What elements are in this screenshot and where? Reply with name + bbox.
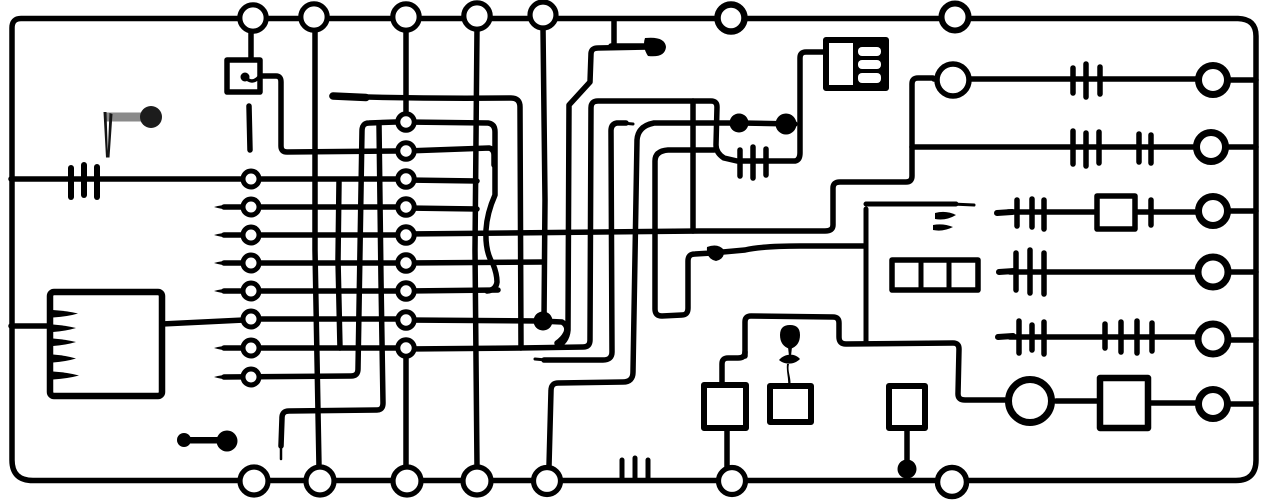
pad dot N6 (898, 460, 917, 479)
resistor R7 box (1097, 196, 1135, 229)
wire row8 to riser (224, 122, 396, 377)
wire pad column jumper top (248, 30, 254, 61)
probe hook dot (140, 106, 162, 128)
wire corner y204 (866, 204, 956, 342)
pad square P3 (889, 386, 925, 428)
header pin M7 (398, 283, 414, 299)
connector pad B7 (938, 468, 967, 497)
wire from box J1 down-right (258, 76, 396, 152)
header pin M6 (398, 255, 414, 271)
stub hanging below J1 (249, 106, 250, 150)
capacitor C5 row3 (1017, 199, 1151, 229)
wire row y122 to S riser (406, 122, 497, 291)
wire row1 right stub (406, 180, 477, 181)
wire row y263 (406, 262, 543, 263)
relay K1 (826, 40, 886, 88)
wire IC input (11, 323, 52, 329)
wire row y320 through junction (406, 320, 567, 343)
header pin L6 (243, 311, 259, 327)
wire row y151 corner (406, 148, 494, 165)
terminal T1 (937, 64, 969, 96)
lamp D1 (1009, 380, 1052, 423)
header pin L8 (243, 369, 259, 385)
capacitor C2 plates (740, 147, 766, 178)
leaf taper row4 (214, 261, 243, 266)
header pin L3 (243, 227, 259, 243)
wire row2 left (224, 204, 398, 210)
wire staircase s5 to curve net (655, 150, 864, 316)
wire row4 left (224, 260, 398, 266)
junction dot N3 (730, 114, 749, 133)
connector pad B3 (393, 467, 421, 495)
wire IC output to pad row (162, 320, 244, 324)
wire top stub to dot (611, 20, 646, 46)
wire right block row5 (1010, 337, 1256, 340)
dumbbell test point (177, 433, 191, 447)
wire mega loop row7 to relay (406, 52, 826, 349)
wire riser x693 (690, 101, 696, 231)
wire top rail riser x316 (315, 30, 319, 466)
junction dot N1 (534, 312, 553, 331)
wire right block row1 (934, 79, 1256, 80)
pad square P1 (704, 385, 746, 428)
pad square P2 (770, 386, 811, 422)
header pin M1 (398, 114, 414, 130)
IC U1 (50, 292, 162, 396)
header pin L4 (243, 255, 259, 271)
wire square pad stub (904, 428, 910, 461)
decorations layer (53, 38, 1152, 479)
terminal T3 (1197, 133, 1226, 162)
relay K1 contacts (853, 43, 884, 85)
wire row5 left (224, 288, 398, 294)
IC U1 pin teeth (53, 310, 78, 318)
header pin L1 (243, 171, 259, 187)
capacitor C6 row4 (1016, 250, 1044, 294)
wire riser x543 to junction (543, 28, 545, 320)
resistor R8 box (1100, 378, 1148, 428)
wire right block row3 (1008, 211, 1256, 212)
wire riser x477 full (475, 29, 477, 466)
connector pad B5 (534, 468, 561, 495)
connector pad A7 (942, 4, 969, 31)
header pin L7 (243, 340, 259, 356)
wire staircase s3 with stub top (544, 123, 626, 360)
capacitor C1 plates (71, 165, 97, 197)
leaf taper row8 (214, 375, 243, 380)
connector pad B4 (463, 467, 491, 495)
wire riser x380 to bottom elbow (281, 124, 383, 446)
probe hook gray bar (106, 113, 144, 122)
terminal T4 (1199, 197, 1228, 226)
junction dot N5 on curve (707, 246, 724, 261)
capacitor C3 row1 (1073, 64, 1100, 97)
connector pad A1 (240, 5, 266, 31)
connector pad B6 (719, 468, 746, 495)
header pin L5 (243, 283, 259, 299)
leaf taper row7 (214, 346, 243, 351)
header pin M3 (398, 171, 414, 187)
wire staircase s4 dots line to bottom pad (549, 123, 795, 466)
wire right block row2 (912, 144, 1256, 150)
wire riser x406 top (403, 30, 409, 113)
terminal T2 (1199, 66, 1228, 95)
box J1 (227, 60, 260, 92)
wire row y291 (406, 290, 498, 291)
wire long row y231 to top right (406, 78, 933, 234)
header pin L2 (243, 199, 259, 215)
wire right block row4 (1010, 269, 1256, 275)
wire riser x406 bottom (403, 357, 409, 466)
balloon TP1 (780, 325, 800, 349)
header pin M2 (398, 143, 414, 159)
connector pad A3 (393, 4, 419, 30)
connector pad A2 (301, 4, 327, 30)
probe hook needle (104, 112, 113, 158)
terminal T6 (1198, 324, 1228, 354)
net stub dot N2 (644, 38, 666, 57)
header pin M9 (398, 340, 414, 356)
leaf taper row2 (214, 205, 243, 210)
connector pad A5 (530, 2, 556, 28)
wire left pad stub (724, 428, 730, 467)
terminal T7 (1199, 390, 1228, 419)
ground comb G1 (622, 458, 648, 478)
wire riser x339 (338, 182, 340, 348)
wire tapered feeder y98 (332, 96, 521, 348)
terminal strip X1 dividers (921, 262, 949, 288)
wire dot to staircase s1 (556, 47, 648, 347)
connector pad B2 (306, 467, 334, 495)
terminal T5 (1198, 257, 1228, 287)
wire row7 left (224, 345, 398, 351)
wire row6 right of IC (260, 316, 398, 322)
leaf taper row3 (214, 233, 243, 238)
junction dot N4 (776, 114, 797, 135)
connector pad A6 (718, 5, 745, 32)
connector pad B1 (240, 467, 268, 495)
J1 inner contact (241, 73, 250, 82)
terminal strip X1 (892, 260, 978, 290)
header pin M8 (398, 312, 414, 328)
wire row short stub y208 (406, 208, 477, 209)
wire gate arch (745, 316, 1005, 400)
wire right block row6 (1056, 401, 1256, 404)
header pin M4 (398, 199, 414, 215)
header pin M5 (398, 227, 414, 243)
capacitor C7 row5 (1019, 321, 1152, 354)
wire net1 left horizontal (11, 176, 398, 182)
squiggle marks (935, 212, 956, 220)
leaf taper row5 (214, 289, 243, 294)
capacitor C4 row2 (1073, 131, 1151, 166)
wire arch left leg (722, 352, 745, 386)
wire row3 left (224, 232, 398, 238)
connector pad A4 (464, 3, 490, 29)
